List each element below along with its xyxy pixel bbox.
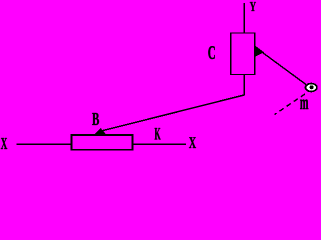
label Y (net at top): [250, 2, 256, 11]
label K: [155, 128, 161, 140]
component box B: [72, 135, 133, 150]
arrowhead on top of B: [93, 128, 107, 136]
wire bottom stub from C: [243, 75, 245, 96]
label x (right terminal): [189, 137, 196, 148]
wire left lead: [17, 143, 72, 145]
label m: [300, 99, 308, 109]
label B: [92, 113, 99, 125]
eye symbol m (ellipse with pupil): [306, 84, 317, 92]
wire top stub into C: [243, 3, 245, 33]
arrowhead at right edge of C: [255, 46, 264, 57]
component box C: [231, 33, 255, 75]
wire diagonal from C stub to B: [100, 95, 244, 131]
dashed sight line from eye: [275, 94, 306, 115]
label C: [208, 46, 215, 59]
wire ray from C arrowhead to eye: [263, 53, 307, 85]
label x (left terminal): [1, 138, 7, 149]
wire right lead: [133, 143, 187, 145]
